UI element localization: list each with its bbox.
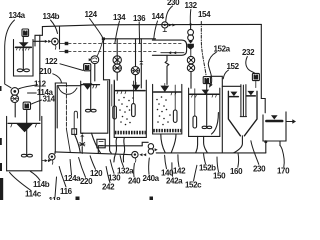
leader 134a <box>5 20 15 88</box>
leader 144 <box>154 21 158 39</box>
leader 112 <box>18 85 37 89</box>
component box 144 (rounded) <box>152 40 186 55</box>
wire dip tube into tank 130 <box>74 111 77 129</box>
svg-text:M: M <box>23 31 27 37</box>
leader 232 <box>246 57 255 74</box>
wire drop into tank 152 <box>190 72 192 89</box>
motor M 232 on clarifier <box>252 73 259 80</box>
zigzag drop to tank 150 <box>165 55 169 84</box>
pump 134 upper circle <box>113 56 121 64</box>
wire dash-dot control line upper (y=44) <box>69 43 184 45</box>
leader 122 <box>60 64 83 71</box>
tank 150 (second electrolysis tank) <box>153 84 182 134</box>
leader 242 <box>106 167 110 183</box>
chemical feeder circle 114a <box>11 95 19 103</box>
leader 114b <box>30 171 40 180</box>
liquid surface tank 110 <box>16 46 32 48</box>
wire line B feed header (y=38.8) <box>103 38 155 40</box>
svg-text:240: 240 <box>128 177 141 186</box>
leader 154 dash-dot <box>201 22 206 77</box>
svg-text:114b: 114b <box>33 180 50 189</box>
leader 132a <box>120 156 123 167</box>
svg-text:170: 170 <box>277 167 290 176</box>
svg-text:M: M <box>85 65 89 71</box>
wire tank 130 drain curve <box>92 133 101 153</box>
wire downcomer x55.3 <box>54 83 56 152</box>
svg-text:136: 136 <box>133 14 146 23</box>
wire pump 122 discharge into tank 130 <box>94 64 96 81</box>
leader 114a <box>28 92 37 94</box>
impeller tank 110 <box>17 69 23 72</box>
wire feed drop x103.5 into tank 130 <box>104 40 110 80</box>
wire valve 136 drop into tank 140 <box>134 75 136 90</box>
tank 152 (third treatment tank) <box>189 88 220 136</box>
pump 114 circle on riser <box>52 38 59 45</box>
impeller tank 152 <box>202 126 207 128</box>
leader 240 <box>133 163 136 177</box>
wire inter-tank header y83 <box>55 82 66 84</box>
svg-text:142: 142 <box>173 167 186 176</box>
nozzle into box 144 <box>187 44 194 50</box>
agitator shaft tank 120 <box>26 110 28 156</box>
wire pump 134 discharge into tank 140 <box>116 72 118 80</box>
dip pipe tank 152 <box>212 113 219 134</box>
tank 130 <box>81 81 108 133</box>
agitator shaft tank 152 <box>206 84 208 128</box>
tank 170 (final tank) <box>263 115 286 141</box>
electrode capsule tank 140 left <box>114 81 116 106</box>
svg-text:134b: 134b <box>43 12 60 21</box>
valve 118 bowtie under tank 130 <box>80 133 84 137</box>
svg-text:152c: 152c <box>185 181 202 190</box>
wire arrows inside box 144 <box>161 52 184 54</box>
pump 124 circle <box>49 154 55 160</box>
drain stub tank 170 <box>279 141 281 146</box>
reference numerals <box>9 0 291 205</box>
wire tank 110 suction riser to line A <box>35 27 42 46</box>
outflow arrow from tank 170 <box>286 121 292 123</box>
flow device 132 capsule on drop line <box>190 25 192 30</box>
svg-text:160: 160 <box>230 167 243 176</box>
pump 124 arrows at tank 120 outlet <box>42 160 45 162</box>
wire junction down to pump 122 <box>97 40 103 56</box>
leader 242a <box>171 163 174 177</box>
svg-text:134a: 134a <box>9 11 26 20</box>
wire tank 110 outlet at y41 <box>33 40 45 42</box>
leader 230 top <box>166 6 173 22</box>
leader 134 <box>115 21 120 44</box>
leader lines <box>5 6 285 197</box>
feedwell clarifier <box>240 85 246 117</box>
svg-text:230: 230 <box>253 165 266 174</box>
pump 230 on line A <box>162 22 168 28</box>
liquid surface tank 150 <box>154 91 181 93</box>
svg-text:220: 220 <box>80 177 93 186</box>
leader 134b <box>51 20 58 34</box>
wire curve from valve 116 to bottom header <box>75 134 81 152</box>
leader 124a <box>70 160 71 175</box>
wire drain hose tank 140 left <box>114 138 117 162</box>
node junction under tank 170 <box>264 140 267 143</box>
svg-text:144: 144 <box>152 12 165 21</box>
svg-text:230: 230 <box>167 0 180 7</box>
svg-text:120: 120 <box>90 169 103 178</box>
svg-text:242a: 242a <box>166 177 183 186</box>
leader 132 <box>189 10 192 25</box>
leader 152b <box>204 154 206 164</box>
motor M 134 on tank 110 <box>22 29 29 36</box>
impeller tank 130 <box>86 109 91 112</box>
liquid surface clarifier right <box>247 91 254 96</box>
svg-text:122: 122 <box>45 57 58 66</box>
wire clarifier underflow <box>234 136 243 153</box>
leader 140 <box>165 155 167 169</box>
svg-text:154: 154 <box>198 10 211 19</box>
bubbles tank 140 <box>118 97 134 126</box>
valve box 116 on downcomer <box>72 129 77 135</box>
wire pump riser x59.5 <box>59 26 61 49</box>
diffuser strip tank 150 bottom <box>153 129 181 132</box>
svg-text:150: 150 <box>213 172 226 181</box>
leader 114c <box>10 172 32 190</box>
leader 118 <box>55 177 57 197</box>
wire bottom header right (BL3) <box>156 152 266 154</box>
svg-text:114c: 114c <box>25 190 42 199</box>
electrode capsule tank 152 <box>194 89 196 116</box>
agitator shaft tank 130 <box>90 71 92 111</box>
node control-line tap upper <box>65 42 69 45</box>
liquid surface tank 140 <box>116 90 146 92</box>
liquid surface tank 130 <box>81 84 100 86</box>
leader 116 <box>59 167 66 188</box>
wire line A right drop to tank 170 <box>261 24 265 112</box>
leader 160 <box>237 154 240 168</box>
flow device 240a (stacked circles) <box>148 144 153 149</box>
electrode capsule tank 140 right <box>132 81 134 104</box>
leader 150 <box>217 157 219 172</box>
bubbles tank 150 <box>156 96 171 125</box>
wire riser x135.6 from line B <box>135 39 137 67</box>
svg-text:242: 242 <box>102 183 115 192</box>
svg-text:134: 134 <box>113 13 126 22</box>
wire riser x141.3 <box>140 39 142 61</box>
wire tank 140 drain header y145.8 <box>98 145 142 147</box>
wire bottom header left (BL2) <box>55 152 132 155</box>
motor M 314 on tank 120 <box>23 102 30 109</box>
leader 142 <box>178 155 179 167</box>
wire U swan-neck pipe <box>58 87 77 95</box>
agitator shaft tank 110 <box>22 36 24 70</box>
svg-text:124: 124 <box>85 10 98 19</box>
motor M 152a on tank 152 <box>203 77 210 84</box>
clarifier 160 <box>228 91 257 136</box>
wire dash-dot control line lower (y=51.5) <box>69 51 157 53</box>
leader 152a <box>208 52 216 85</box>
tank 110 (top-left small tank) <box>14 40 34 76</box>
pump 130a on bottom header <box>132 151 138 157</box>
wire downcomer x66.4 <box>65 83 67 129</box>
pump circle upper on drop to tank 152 <box>190 50 192 57</box>
liquid surface tank 120 <box>8 122 40 124</box>
pump 134 lower circle <box>113 64 121 72</box>
svg-text:314: 314 <box>43 95 56 104</box>
tank 120 <box>7 116 42 170</box>
scan edge artifacts <box>0 86 153 200</box>
wire riser x117 from line B <box>116 39 118 56</box>
svg-text:232: 232 <box>242 48 255 57</box>
tank 140 (first electrolysis tank) <box>114 80 146 137</box>
wire tank 152 outlets <box>196 136 198 152</box>
svg-text:124a: 124a <box>64 174 81 183</box>
pump box 132a <box>97 139 105 148</box>
pump 114 arrows (tank 110 outlet) <box>45 40 48 43</box>
wire drain hose tank 140 right <box>123 138 124 162</box>
wire overflow pipe x222 <box>211 76 223 153</box>
stub tank 170 right wall <box>285 112 287 115</box>
impeller tank 120 <box>21 154 26 157</box>
valve bowtie on riser x141.3 <box>139 61 143 64</box>
wire downcomer x109.6 between tank 130 and tank 140 <box>110 80 112 153</box>
wire curve x66.4 tail <box>66 129 70 153</box>
leader 136 <box>138 22 140 44</box>
leader 120 <box>90 156 95 170</box>
svg-text:132a: 132a <box>117 167 134 176</box>
leader 152 <box>223 70 228 79</box>
valve 136 circle with X <box>131 67 139 75</box>
svg-text:152a: 152a <box>214 45 231 54</box>
wire drop pipe from y35 header to tank 120 <box>39 35 41 120</box>
leader 210 <box>53 74 62 83</box>
leader 314 <box>32 100 42 104</box>
motor M 122 (tank 130 agitator) <box>84 64 91 71</box>
leader 240a <box>148 158 151 174</box>
svg-text:118: 118 <box>49 196 62 200</box>
svg-text:152: 152 <box>227 62 240 71</box>
leader 130 <box>110 160 114 174</box>
pump circle lower on drop to tank 152 <box>187 64 194 71</box>
wire downcomer x57.2 with overflow to tank 130 <box>57 86 81 128</box>
wire riser to tank 170 bottom <box>265 142 267 153</box>
leader 124 <box>90 19 103 38</box>
wire main overflow line A (y=25) <box>42 24 261 26</box>
svg-text:132: 132 <box>185 1 198 10</box>
node junction 124 <box>102 37 105 40</box>
wire tank 150 outlets <box>161 134 165 153</box>
valve star under tank 130 <box>79 141 85 147</box>
svg-text:116: 116 <box>60 187 73 196</box>
liquid surface tank 170 <box>266 120 282 123</box>
node control-line tap lower <box>65 50 69 53</box>
liquid surface tank 152 <box>190 93 219 95</box>
leader 152c <box>194 165 197 181</box>
wire stub x111.8 beside tank 140 wall <box>111 85 113 107</box>
electrode capsule tank 150 <box>174 85 176 110</box>
leader 170 <box>280 146 284 167</box>
leader 220 <box>79 158 86 178</box>
pump 122 circle <box>91 56 99 64</box>
liquid surface clarifier left <box>230 92 237 97</box>
wire feed to clarifier feedwell <box>222 85 241 87</box>
leader 230 bottom <box>251 141 259 165</box>
chemical feeder circle 112 <box>11 88 19 96</box>
svg-text:240a: 240a <box>143 174 160 183</box>
diffuser strip tank 140 bottom <box>115 131 146 135</box>
wire feeder drop into tank 120 <box>14 103 16 118</box>
svg-text:210: 210 <box>39 67 52 76</box>
